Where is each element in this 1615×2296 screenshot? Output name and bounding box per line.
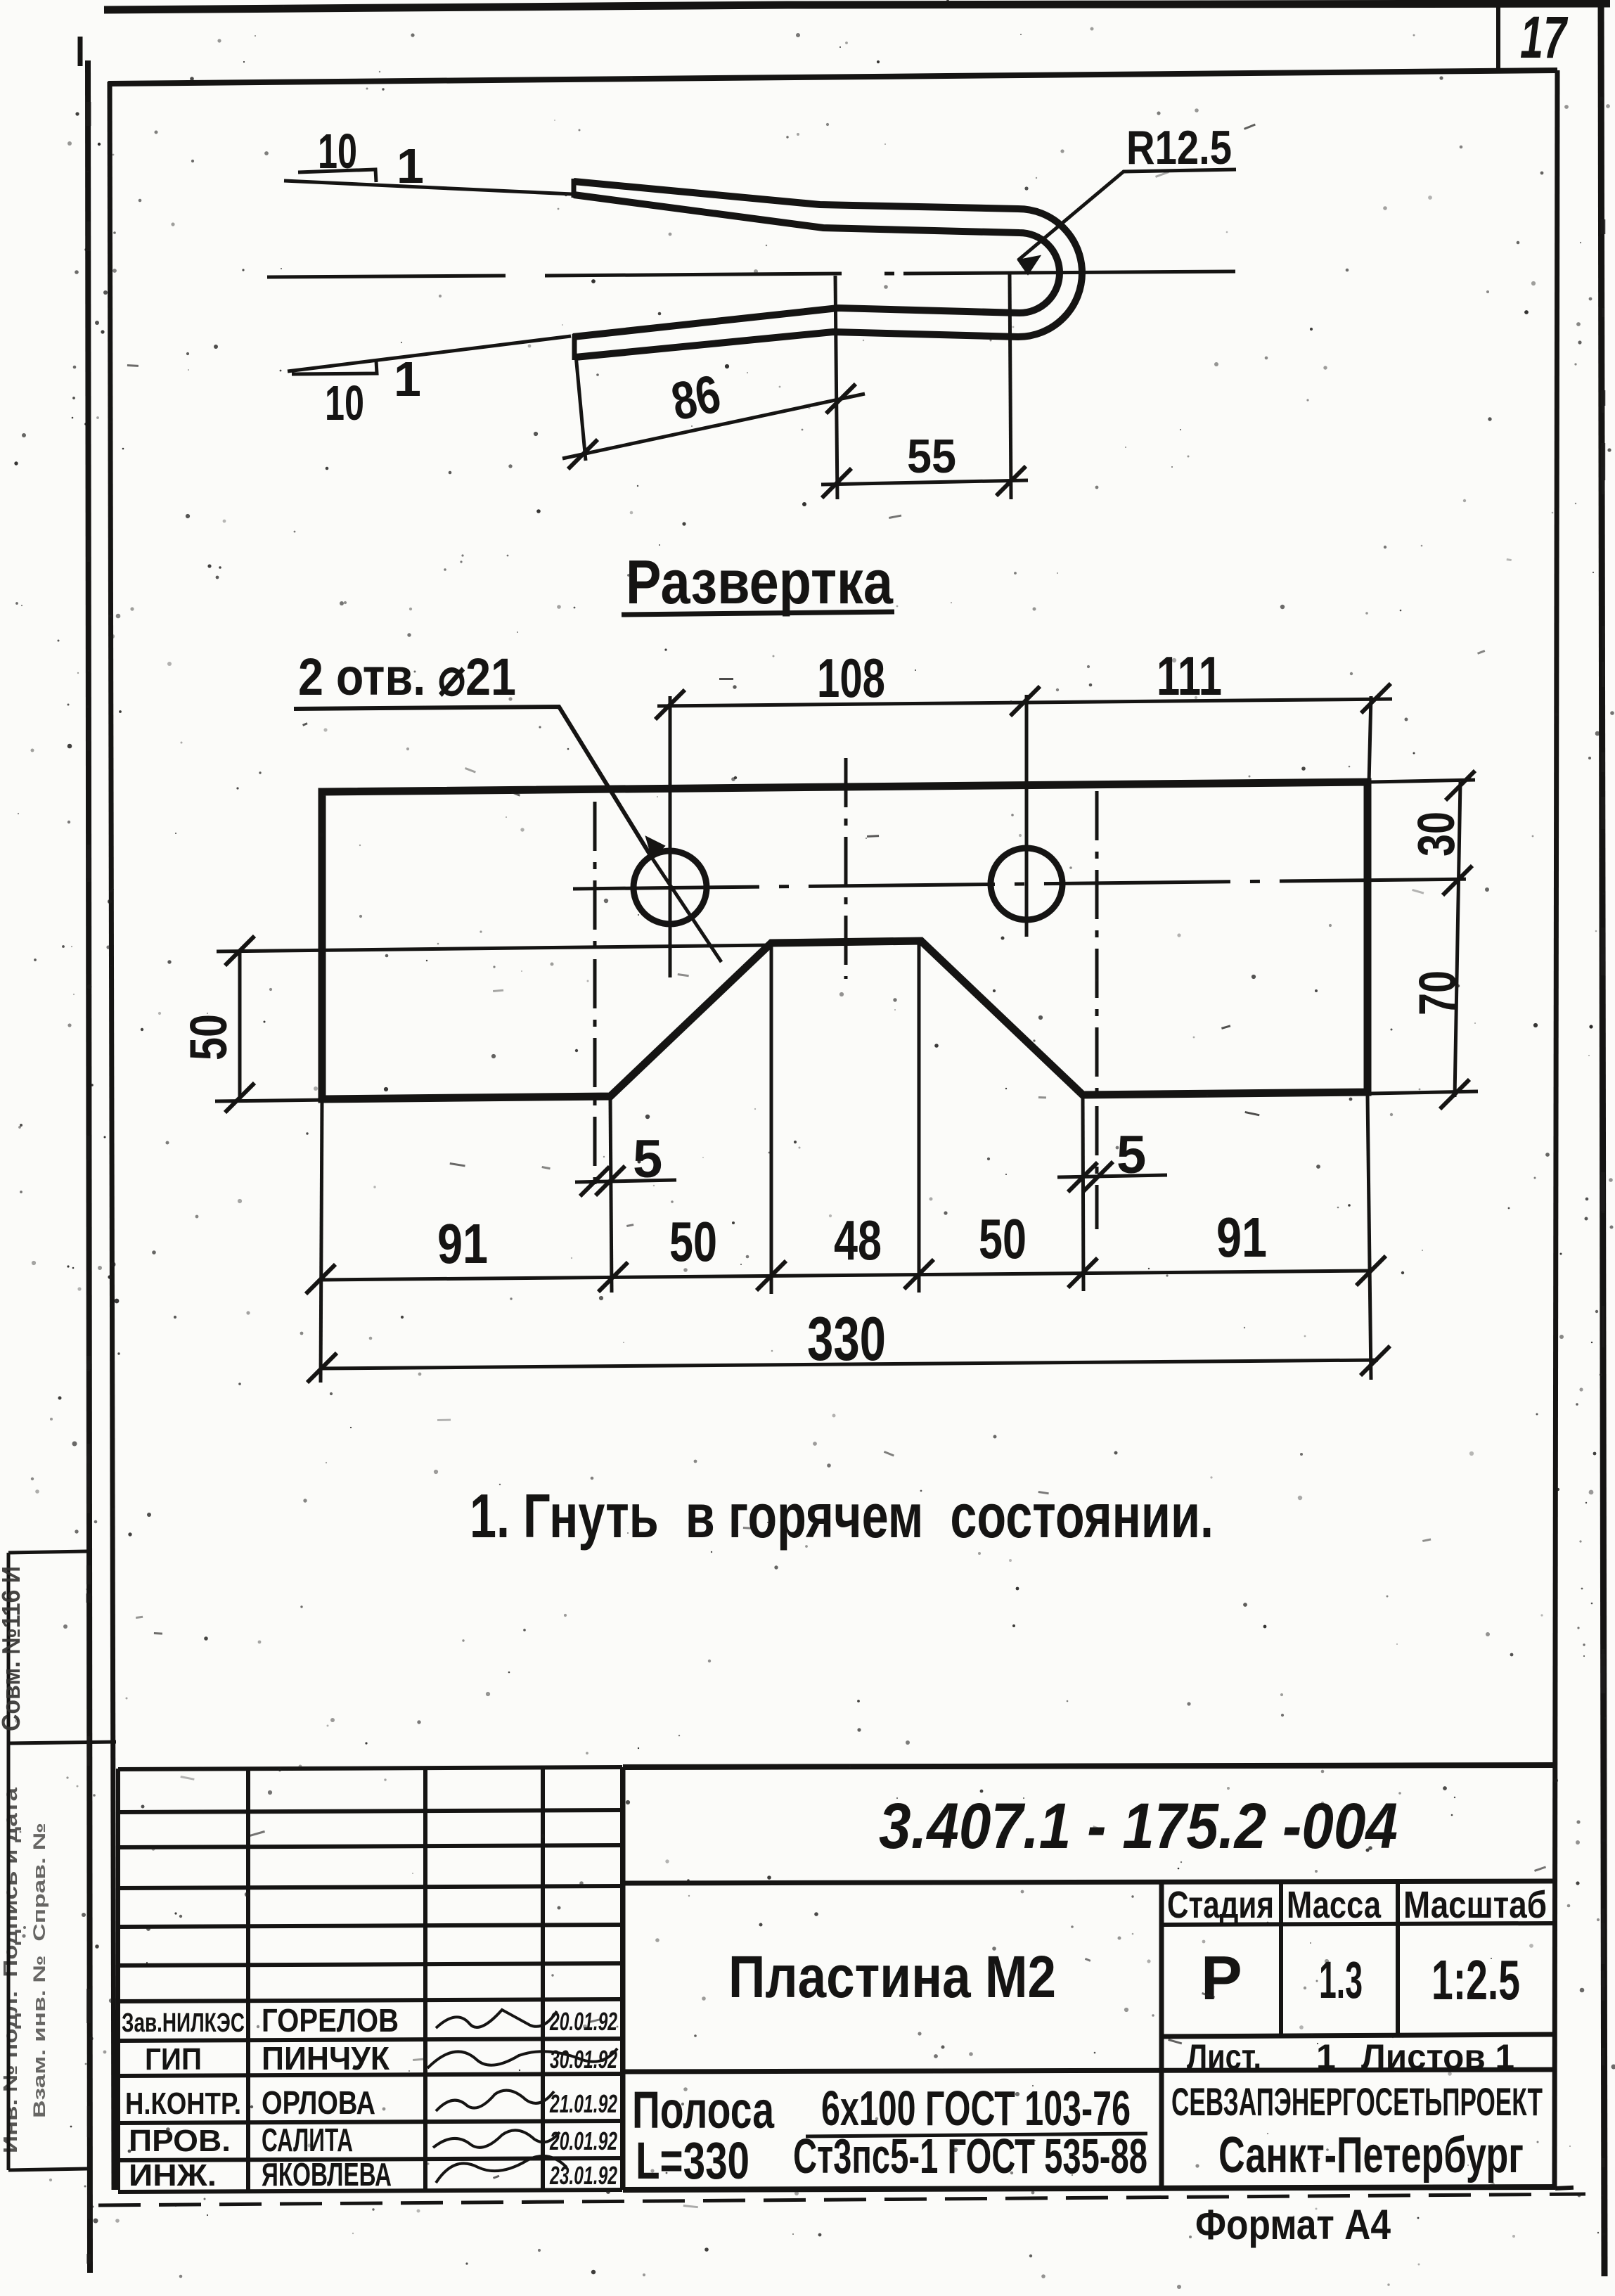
svg-text:Н.КОНТР.: Н.КОНТР.	[125, 2086, 241, 2121]
extension plateau left corner down	[770, 946, 773, 1294]
hole right (d21)	[991, 848, 1062, 920]
svg-text:Совм. №116 И: Совм. №116 И	[0, 1566, 25, 1731]
svg-text:91: 91	[437, 1212, 488, 1275]
svg-text:111: 111	[1157, 645, 1222, 707]
svg-text:3.407.1 - 175.2 -004: 3.407.1 - 175.2 -004	[879, 1790, 1398, 1862]
svg-text:Формат А4: Формат А4	[1195, 2201, 1391, 2248]
svg-text:55: 55	[907, 430, 956, 483]
svg-text:21.01.92: 21.01.92	[549, 2089, 617, 2118]
svg-text:Масса: Масса	[1287, 1884, 1382, 1926]
svg-text:30: 30	[1407, 812, 1465, 857]
extension right edge down	[1368, 1095, 1371, 1380]
left bend axis dash-dot line	[593, 802, 597, 1195]
svg-text:1: 1	[394, 352, 421, 406]
svg-text:17: 17	[1520, 4, 1568, 70]
hole left (d21)	[633, 851, 707, 924]
right hole vertical center line	[1025, 695, 1029, 937]
svg-text:70: 70	[1408, 970, 1467, 1015]
svg-text:ГИП: ГИП	[145, 2042, 202, 2077]
title block left line	[621, 1767, 626, 2190]
title underline	[622, 612, 894, 615]
frame right inner border	[1555, 70, 1557, 2188]
extension left edge down	[321, 1102, 322, 1383]
svg-text:108: 108	[817, 647, 885, 709]
leader R12.5	[1018, 169, 1236, 260]
dim 86 extension right / dim 55 extension left	[835, 276, 837, 499]
grid verticals	[1279, 1883, 1283, 2035]
grid values underline	[1162, 2034, 1555, 2037]
right bend axis dash-dot line	[1095, 791, 1099, 1229]
middle band bottom separator	[623, 2070, 1555, 2072]
dim 70 extension bottom	[1371, 1091, 1478, 1094]
dim row 330 line	[321, 1360, 1378, 1368]
svg-text:ЯКОВЛЕВА: ЯКОВЛЕВА	[262, 2156, 392, 2193]
grid header underline	[1162, 1923, 1555, 1925]
title block top line	[623, 1765, 1555, 1767]
svg-text:Взам. инв. № Справ. №: Взам. инв. № Справ. №	[30, 1823, 49, 2118]
title bottom dashed tail	[1555, 2187, 1585, 2188]
svg-text:20.01.92: 20.01.92	[549, 2127, 617, 2155]
dim 30/70 line	[1455, 782, 1460, 1097]
svg-text:20.01.92: 20.01.92	[549, 2007, 617, 2036]
svg-text:6х100 ГОСТ 103-76: 6х100 ГОСТ 103-76	[821, 2081, 1131, 2136]
side view: lower taper line to tip	[288, 336, 571, 371]
holes horizontal center line	[573, 879, 1474, 889]
svg-text:ИНЖ.: ИНЖ.	[129, 2158, 217, 2193]
development plate outline	[322, 782, 1368, 1099]
side view: upper chamfer tick 10x1	[298, 169, 376, 182]
dim 5 left line	[575, 1180, 676, 1182]
svg-text:330: 330	[807, 1304, 886, 1373]
svg-text:СЕВЗАПЭНЕРГОСЕТЬПРОЕКТ: СЕВЗАПЭНЕРГОСЕТЬПРОЕКТ	[1171, 2079, 1543, 2124]
svg-text:1: 1	[397, 139, 424, 193]
svg-text:Развертка: Развертка	[626, 547, 894, 617]
left strip box 1 rotated text	[0, 1566, 25, 1731]
svg-text:Пластина М2: Пластина М2	[728, 1944, 1056, 2010]
dim 55 line	[821, 480, 1028, 485]
dim 108 extension right-edge	[1369, 696, 1371, 783]
signature table vertical lines	[116, 1769, 120, 2190]
signature squiggles	[436, 2010, 557, 2028]
svg-text:САЛИТА: САЛИТА	[262, 2122, 353, 2158]
left strip box 2 rotated text a	[0, 1787, 21, 2153]
middle axis dash-dot line	[844, 758, 848, 979]
left corner extension for dim 5	[610, 1098, 612, 1293]
side view: lower leaf left end step	[572, 334, 577, 360]
scan noise speckles	[528, 345, 532, 348]
right outer border	[1601, 0, 1604, 2276]
left inner border	[110, 82, 114, 2190]
svg-text:Стадия: Стадия	[1167, 1884, 1274, 1926]
svg-text:Инв. № подл. Подпись и дата: Инв. № подл. Подпись и дата	[0, 1787, 21, 2153]
svg-text:Ст3пс5-1 ГОСТ 535-88: Ст3пс5-1 ГОСТ 535-88	[793, 2129, 1147, 2183]
dim 86 extension left	[576, 355, 586, 461]
svg-text:Полоса: Полоса	[632, 2081, 775, 2139]
svg-text:Р: Р	[1201, 1943, 1242, 2013]
left strip box 2 bottom line	[8, 2169, 87, 2170]
svg-text:Листов 1: Листов 1	[1361, 2037, 1514, 2077]
title block bottom line	[623, 2187, 1555, 2190]
svg-text:ПИНЧУК: ПИНЧУК	[262, 2040, 390, 2077]
svg-text:Зав.НИЛКЭС: Зав.НИЛКЭС	[122, 2008, 245, 2038]
svg-text:5: 5	[1117, 1125, 1146, 1185]
left outer border	[88, 60, 90, 2273]
signature table horizontal lines	[118, 1767, 622, 1769]
svg-text:Лист.: Лист.	[1187, 2037, 1261, 2077]
dim 50 extension bottom	[215, 1100, 330, 1101]
side view: upper taper line to tip	[284, 181, 572, 194]
right corner extension for dim 5	[1083, 1097, 1083, 1291]
dim row 91/50/48/50/91 line	[321, 1271, 1372, 1280]
dim 50 extension top (to plateau corner)	[217, 945, 770, 951]
svg-text:50: 50	[669, 1210, 717, 1273]
svg-text:ОРЛОВА: ОРЛОВА	[262, 2084, 375, 2121]
extension plateau right corner down	[918, 944, 921, 1293]
svg-text:ГОРЕЛОВ: ГОРЕЛОВ	[262, 2002, 399, 2039]
svg-text:50: 50	[979, 1207, 1027, 1270]
dim 5 right line	[1057, 1175, 1167, 1177]
dim 30 extension top	[1371, 780, 1475, 782]
dim row 108/111 line	[657, 699, 1392, 706]
svg-text:10: 10	[325, 376, 364, 430]
sheet top edge line	[104, 4, 1610, 10]
side view: upper leaf top edge with bend outer arc	[574, 181, 1082, 357]
dim 86 line	[562, 394, 865, 458]
svg-text:50: 50	[179, 1014, 238, 1060]
left strip box 2 left line	[7, 1743, 11, 2170]
left strip box 1 border	[8, 1551, 116, 1743]
side view: upper leaf bottom edge with bend inner arc	[573, 195, 1060, 337]
svg-text:1: 1	[1316, 2037, 1336, 2077]
left strip box 2 rotated text b	[30, 1823, 49, 2118]
svg-text:1. Гнуть в горячем состоянии: 1. Гнуть в горячем состоянии.	[470, 1481, 1214, 1551]
material underline	[806, 2134, 1147, 2136]
left hole vertical center line	[669, 696, 672, 977]
svg-text:2 отв. ⌀21: 2 отв. ⌀21	[298, 648, 516, 706]
svg-text:ПРОВ.: ПРОВ.	[129, 2124, 231, 2158]
dim 50 left vertical line	[238, 951, 242, 1099]
svg-text:5: 5	[633, 1129, 662, 1189]
svg-text:23.01.92: 23.01.92	[549, 2161, 617, 2190]
dim 55 extension right	[1010, 274, 1011, 499]
vertical divider name/grid	[1159, 1883, 1164, 2189]
side view: lower chamfer tick 10x1	[292, 361, 377, 374]
bottom dashed border	[98, 2194, 1585, 2205]
svg-text:10: 10	[318, 124, 357, 179]
svg-text:48: 48	[834, 1209, 882, 1271]
doc number separator	[623, 1881, 1555, 1883]
svg-text:L=330: L=330	[636, 2131, 749, 2190]
svg-text:1:2.5: 1:2.5	[1431, 1949, 1520, 2011]
svg-text:Масштаб: Масштаб	[1403, 1884, 1547, 1926]
side view: upper leaf left end step	[572, 179, 577, 198]
svg-text:Санкт-Петербург: Санкт-Петербург	[1218, 2127, 1524, 2183]
svg-text:R12.5: R12.5	[1126, 121, 1232, 174]
leader 2 otv d21	[294, 707, 652, 859]
frame top border	[108, 70, 1557, 84]
page number box divider	[1496, 0, 1500, 72]
top-left corner tick	[78, 37, 83, 66]
side view: center axis line	[267, 271, 1235, 277]
svg-text:91: 91	[1216, 1206, 1267, 1269]
